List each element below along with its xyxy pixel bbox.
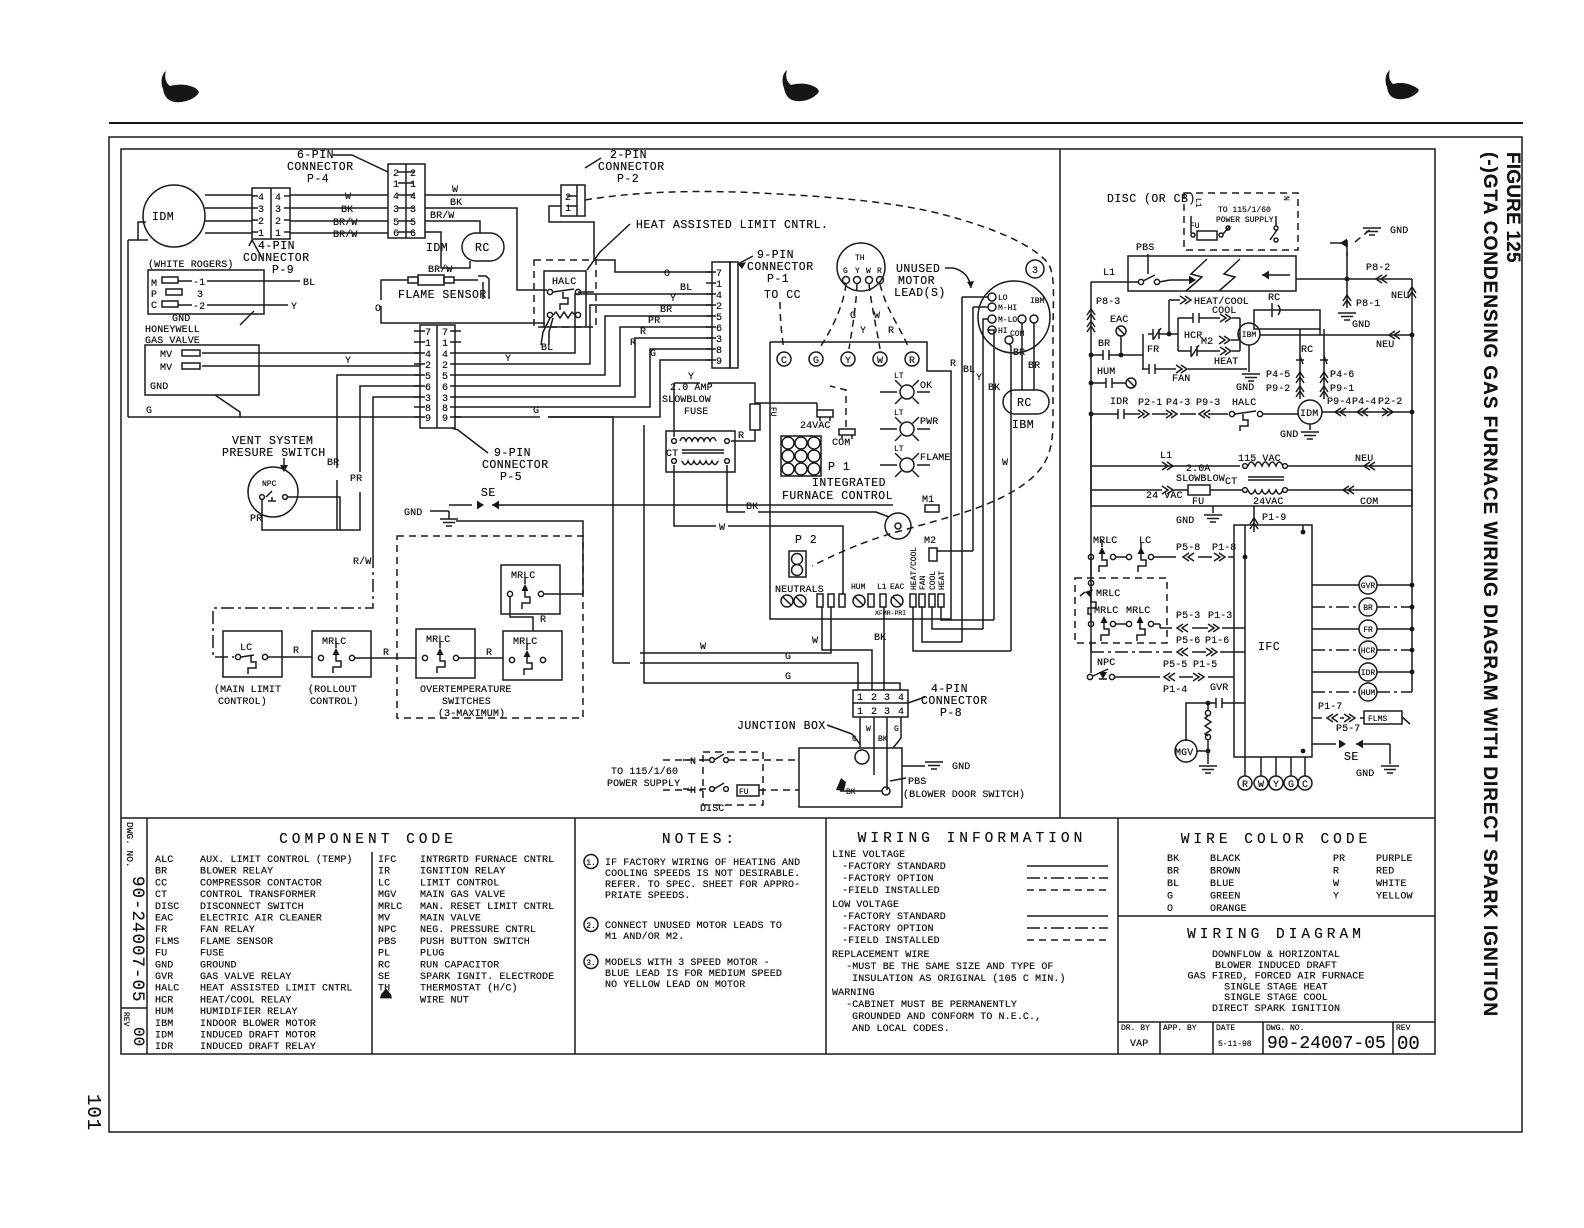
svg-text:(3-MAXIMUM): (3-MAXIMUM) <box>438 708 505 720</box>
svg-text:HALC: HALC <box>1232 398 1256 409</box>
svg-text:GND: GND <box>1352 320 1370 331</box>
svg-text:SWITCHES: SWITCHES <box>442 697 491 708</box>
svg-text:(BLOWER DOOR SWITCH): (BLOWER DOOR SWITCH) <box>903 789 1025 801</box>
svg-text:3: 3 <box>884 693 890 704</box>
svg-text:00: 00 <box>129 1027 147 1046</box>
svg-text:BR: BR <box>1028 361 1040 372</box>
thermostat TH <box>837 243 885 291</box>
svg-text:CONNECT UNUSED MOTOR LEADS TO: CONNECT UNUSED MOTOR LEADS TO <box>605 921 782 932</box>
svg-text:PRIATE SPEEDS.: PRIATE SPEEDS. <box>605 891 690 902</box>
heat cool stub <box>1168 300 1170 334</box>
MRLC pair in dashed box <box>1088 621 1093 626</box>
svg-text:G: G <box>852 735 857 744</box>
ground at junction box <box>902 765 925 767</box>
svg-text:Y: Y <box>291 302 297 313</box>
svg-text:EAC: EAC <box>1110 315 1128 326</box>
svg-text:DWG. NO.: DWG. NO. <box>1266 1024 1304 1033</box>
svg-text:REV: REV <box>121 1012 130 1027</box>
inner border frame <box>121 149 1435 1054</box>
induced draft motor IDM <box>143 185 205 247</box>
svg-text:L1: L1 <box>1193 198 1202 208</box>
svg-text:HEAT/COOL: HEAT/COOL <box>910 547 919 590</box>
svg-text:BL: BL <box>303 278 315 289</box>
svg-text:1: 1 <box>425 339 431 350</box>
svg-text:GND: GND <box>1390 226 1408 237</box>
svg-text:MV: MV <box>378 914 390 925</box>
wire G 2 <box>644 425 900 690</box>
svg-text:HUM: HUM <box>1361 689 1376 698</box>
svg-text:90-24007-05: 90-24007-05 <box>127 876 147 1003</box>
svg-text:FURNACE CONTROL: FURNACE CONTROL <box>782 490 893 503</box>
24vac winding <box>1243 488 1248 493</box>
svg-text:WIRE COLOR CODE: WIRE COLOR CODE <box>1181 832 1372 848</box>
svg-text:W: W <box>1333 879 1339 890</box>
IDM motor right <box>1298 400 1322 424</box>
wire G P-5 to P-1 <box>548 360 712 417</box>
svg-text:CONTROL): CONTROL) <box>310 696 359 708</box>
svg-text:BL: BL <box>541 343 553 354</box>
svg-text:PLUG: PLUG <box>420 949 444 960</box>
svg-text:IBM: IBM <box>1030 297 1045 306</box>
svg-text:P 2: P 2 <box>795 534 817 547</box>
overtemp switch MRLC b <box>503 631 562 680</box>
svg-text:W: W <box>345 192 351 203</box>
svg-text:PR: PR <box>648 316 660 327</box>
svg-text:FLMS: FLMS <box>155 937 179 948</box>
svg-text:6: 6 <box>716 324 722 335</box>
svg-text:IFC: IFC <box>378 855 396 866</box>
svg-text:W: W <box>452 185 458 196</box>
lamp FLAME <box>900 458 914 472</box>
svg-text:5: 5 <box>425 372 431 383</box>
ink blob top-right <box>1386 70 1419 99</box>
connector P-9 <box>252 188 290 239</box>
svg-text:ALC: ALC <box>155 855 173 866</box>
IBM motor right <box>1238 323 1260 345</box>
svg-text:IDM: IDM <box>152 211 174 224</box>
svg-text:BROWN: BROWN <box>1210 867 1241 878</box>
svg-text:1: 1 <box>442 339 448 350</box>
svg-text:1: 1 <box>857 693 863 704</box>
svg-text:R: R <box>888 326 894 337</box>
svg-text:GND: GND <box>155 960 173 971</box>
ground P8-1 <box>1346 243 1348 308</box>
svg-text:G: G <box>533 406 539 417</box>
svg-text:NO YELLOW LEAD ON MOTOR: NO YELLOW LEAD ON MOTOR <box>605 980 745 991</box>
svg-text:P2-2: P2-2 <box>1378 397 1402 408</box>
negative pressure control NPC <box>248 467 298 517</box>
svg-text:FLAME: FLAME <box>920 453 951 464</box>
svg-text:R: R <box>630 338 636 349</box>
svg-text:FUSE: FUSE <box>684 407 708 418</box>
wires into isolation box <box>1091 281 1138 283</box>
svg-text:P5-5: P5-5 <box>1163 660 1187 671</box>
svg-text:IDM: IDM <box>1300 409 1318 420</box>
svg-text:101: 101 <box>82 1094 104 1131</box>
svg-text:9: 9 <box>716 357 722 368</box>
svg-text:POWER SUPPLY: POWER SUPPLY <box>1216 216 1274 225</box>
svg-text:BK: BK <box>846 788 856 797</box>
HALC resistor <box>547 312 552 317</box>
svg-text:MAN. RESET LIMIT CNTRL: MAN. RESET LIMIT CNTRL <box>420 902 554 913</box>
svg-text:6: 6 <box>442 383 448 394</box>
svg-text:FAN RELAY: FAN RELAY <box>200 925 255 936</box>
svg-text:PL: PL <box>378 949 390 960</box>
isolation box with bolts <box>1128 256 1296 291</box>
svg-text:2.: 2. <box>586 922 596 931</box>
svg-text:P1-6: P1-6 <box>1205 636 1229 647</box>
svg-text:BLUE: BLUE <box>1210 879 1234 890</box>
svg-text:G: G <box>1167 892 1173 903</box>
schematic divider <box>1059 149 1061 818</box>
wire PR P-5 to P-1 <box>461 327 712 386</box>
SE right <box>1312 743 1336 745</box>
svg-text:MV: MV <box>160 350 172 361</box>
svg-text:5: 5 <box>393 218 399 229</box>
svg-text:IF FACTORY WIRING OF HEATING A: IF FACTORY WIRING OF HEATING AND <box>605 858 800 869</box>
svg-text:6: 6 <box>425 383 431 394</box>
svg-text:SLOWBLOW: SLOWBLOW <box>1176 474 1225 485</box>
svg-text:R: R <box>486 648 492 659</box>
svg-text:Y: Y <box>860 326 866 337</box>
svg-text:2: 2 <box>871 707 877 718</box>
wire BR/W to RC cap <box>425 221 480 233</box>
svg-text:BK: BK <box>746 502 758 513</box>
GND under IDM right <box>1309 424 1311 430</box>
svg-text:P9-2: P9-2 <box>1266 384 1290 395</box>
wire G gas valve ground <box>215 395 240 417</box>
svg-text:NEU: NEU <box>1376 340 1394 351</box>
svg-text:P 1: P 1 <box>828 461 850 474</box>
svg-text:VAP: VAP <box>1130 1039 1148 1050</box>
svg-text:G: G <box>785 652 791 663</box>
svg-text:Y: Y <box>670 294 676 305</box>
svg-text:P4-6: P4-6 <box>1330 370 1354 381</box>
svg-text:5: 5 <box>442 372 448 383</box>
svg-text:PBS: PBS <box>1136 243 1154 254</box>
wires P-8 to junction box <box>859 717 861 748</box>
svg-text:C: C <box>1302 780 1308 791</box>
svg-text:G: G <box>785 672 791 683</box>
svg-text:BK: BK <box>874 633 886 644</box>
svg-text:MRLC: MRLC <box>1094 606 1118 617</box>
svg-text:LC: LC <box>378 878 390 889</box>
svg-text:SE: SE <box>1344 751 1359 764</box>
outer border frame <box>109 137 1522 1132</box>
svg-text:EAC: EAC <box>155 914 173 925</box>
FR contact top <box>1148 328 1165 340</box>
svg-text:HEAT ASSISTED LIMIT CNTRL.: HEAT ASSISTED LIMIT CNTRL. <box>636 219 828 232</box>
HEAT row <box>1186 345 1202 357</box>
svg-text:MODELS WITH 3 SPEED MOTOR -: MODELS WITH 3 SPEED MOTOR - <box>605 958 770 969</box>
svg-text:IDM: IDM <box>155 1031 173 1042</box>
svg-text:M2: M2 <box>924 536 936 547</box>
right rail lower <box>1411 466 1413 506</box>
svg-text:BLOWER RELAY: BLOWER RELAY <box>200 867 273 878</box>
wire W neutral down <box>822 607 872 690</box>
svg-text:G: G <box>146 406 152 417</box>
svg-text:4: 4 <box>410 192 416 203</box>
ground top right <box>1363 227 1381 229</box>
svg-text:7: 7 <box>442 328 448 339</box>
svg-text:HEAT: HEAT <box>1214 357 1238 368</box>
svg-text:W: W <box>1258 780 1264 791</box>
wire to P1-9 gnd <box>1090 490 1092 506</box>
junction box <box>799 748 902 807</box>
svg-text:9: 9 <box>442 414 448 425</box>
main gas valve MGV <box>1175 740 1197 762</box>
svg-text:WIRING INFORMATION: WIRING INFORMATION <box>858 831 1087 847</box>
heat assisted limit control HALC <box>544 271 586 327</box>
svg-text:MRLC: MRLC <box>426 635 450 646</box>
svg-text:P5-6: P5-6 <box>1176 636 1200 647</box>
bracket3 into IBM <box>1239 318 1241 351</box>
svg-text:HUM: HUM <box>155 1007 173 1018</box>
svg-text:SINGLE STAGE COOL: SINGLE STAGE COOL <box>1224 993 1328 1004</box>
wire R MRLC1 to MRLC2 <box>355 657 416 659</box>
svg-text:2: 2 <box>442 361 448 372</box>
svg-text:GAS FIRED, FORCED AIR FURNACE: GAS FIRED, FORCED AIR FURNACE <box>1188 972 1365 983</box>
wire R MRLC a to b <box>459 657 503 659</box>
svg-text:INTRGRTD FURNACE CNTRL: INTRGRTD FURNACE CNTRL <box>420 855 554 866</box>
svg-text:GROUND: GROUND <box>200 960 237 971</box>
svg-text:DATE: DATE <box>1216 1024 1235 1033</box>
overtemperature dashed box <box>397 536 583 718</box>
svg-text:R: R <box>1242 780 1248 791</box>
FAN row <box>1142 368 1149 370</box>
svg-text:3: 3 <box>197 290 203 301</box>
svg-text:4: 4 <box>425 350 431 361</box>
svg-text:C: C <box>781 356 787 367</box>
wire Y P-5 to P-1 <box>461 305 712 364</box>
svg-text:PRESURE SWITCH: PRESURE SWITCH <box>222 447 326 460</box>
svg-text:INTEGRATED: INTEGRATED <box>812 477 886 490</box>
svg-text:BR/W: BR/W <box>333 217 357 229</box>
svg-text:-FIELD INSTALLED: -FIELD INSTALLED <box>836 886 940 897</box>
svg-text:WHITE: WHITE <box>1376 879 1407 890</box>
terminals C G Y W R <box>777 352 791 366</box>
wire P-2 pin1 to O wire <box>549 206 712 272</box>
svg-text:C: C <box>151 301 157 312</box>
svg-text:PWR: PWR <box>920 417 938 428</box>
svg-text:PBS: PBS <box>908 777 926 788</box>
svg-text:G: G <box>813 356 819 367</box>
svg-text:SE: SE <box>481 487 496 500</box>
svg-text:REPLACEMENT WIRE: REPLACEMENT WIRE <box>832 950 930 961</box>
svg-text:P9-3: P9-3 <box>1196 398 1220 409</box>
svg-text:BR: BR <box>1363 604 1373 613</box>
svg-text:P8-3: P8-3 <box>1096 297 1120 308</box>
svg-text:MV: MV <box>160 363 172 374</box>
svg-text:W: W <box>866 267 871 276</box>
svg-text:RED: RED <box>1376 867 1394 878</box>
svg-text:6: 6 <box>393 229 399 240</box>
wire BK from CT to M1 <box>727 465 745 512</box>
svg-text:2.0 AMP: 2.0 AMP <box>670 383 713 394</box>
svg-text:-FACTORY STANDARD: -FACTORY STANDARD <box>836 862 946 873</box>
svg-text:RC: RC <box>378 960 390 971</box>
svg-text:CT: CT <box>155 890 167 901</box>
svg-text:P5-7: P5-7 <box>1336 724 1360 735</box>
svg-text:IBM: IBM <box>155 1019 173 1030</box>
svg-text:DISC: DISC <box>155 902 179 913</box>
wire Y gas valve to P-5 <box>202 365 420 367</box>
svg-text:1.: 1. <box>586 859 596 868</box>
svg-text:RC: RC <box>475 242 490 255</box>
top rule <box>109 122 1523 124</box>
svg-text:HEAT: HEAT <box>938 571 947 590</box>
wire W from CT <box>674 465 716 526</box>
svg-text:P8-2: P8-2 <box>1366 263 1390 274</box>
svg-text:IR: IR <box>378 867 390 878</box>
svg-text:00: 00 <box>1397 1033 1420 1055</box>
svg-text:4: 4 <box>898 693 904 704</box>
svg-text:4: 4 <box>393 192 399 203</box>
svg-text:COMPRESSOR CONTACTOR: COMPRESSOR CONTACTOR <box>200 878 322 889</box>
svg-text:DWG. NO.: DWG. NO. <box>124 822 135 868</box>
svg-text:BR/W: BR/W <box>428 264 452 276</box>
svg-text:GREEN: GREEN <box>1210 892 1241 903</box>
svg-text:IGNITION RELAY: IGNITION RELAY <box>420 867 505 878</box>
svg-text:JUNCTION BOX: JUNCTION BOX <box>737 720 826 733</box>
svg-text:IDR: IDR <box>155 1042 173 1053</box>
svg-text:MRLC: MRLC <box>511 571 535 582</box>
svg-text:INSULATION AS ORIGINAL (105 C: INSULATION AS ORIGINAL (105 C MIN.) <box>846 973 1066 985</box>
svg-text:OK: OK <box>920 381 932 392</box>
wire BR vertical to NPC <box>337 375 420 468</box>
svg-text:BLOWER INDUCED DRAFT: BLOWER INDUCED DRAFT <box>1215 961 1337 972</box>
svg-text:H: H <box>690 786 696 797</box>
svg-text:FU: FU <box>155 949 167 960</box>
wire BL P-5 to P-1 <box>461 294 712 353</box>
svg-text:P-2: P-2 <box>617 173 639 186</box>
svg-text:LT: LT <box>894 372 904 381</box>
ground under MGV <box>1207 751 1209 764</box>
svg-text:GND: GND <box>952 762 970 773</box>
svg-text:SINGLE STAGE HEAT: SINGLE STAGE HEAT <box>1224 982 1328 993</box>
dashed MRLC box <box>1075 578 1167 643</box>
svg-text:R: R <box>540 615 546 626</box>
spark electrode below HALC <box>541 318 550 345</box>
svg-text:24VAC: 24VAC <box>800 421 831 432</box>
svg-text:DISCONNECT SWITCH: DISCONNECT SWITCH <box>200 902 304 913</box>
svg-text:WIRE NUT: WIRE NUT <box>420 995 469 1006</box>
svg-text:N: N <box>1281 196 1290 201</box>
svg-text:1: 1 <box>258 229 264 240</box>
wires BR to RC idm2 <box>1021 323 1023 390</box>
svg-text:G: G <box>650 349 656 360</box>
svg-text:LC: LC <box>240 643 252 654</box>
svg-text:FLAME SENSOR: FLAME SENSOR <box>200 937 273 948</box>
wire PR from NPC <box>262 497 340 530</box>
24vac plug <box>817 410 833 417</box>
svg-text:W: W <box>866 725 871 734</box>
circled 3 <box>1026 260 1044 278</box>
ink blob top-center <box>783 70 819 101</box>
IFC terminal box outline <box>770 342 951 619</box>
title block strip <box>1118 1021 1435 1023</box>
svg-text:TH: TH <box>855 254 865 263</box>
disc switches <box>710 758 715 763</box>
svg-text:(ROLLOUT: (ROLLOUT <box>308 684 357 696</box>
svg-text:PURPLE: PURPLE <box>1376 854 1413 865</box>
connector P-2 2-pin <box>561 185 585 216</box>
svg-text:Y: Y <box>976 373 982 384</box>
svg-text:P1-9: P1-9 <box>1262 513 1286 524</box>
svg-text:-FACTORY OPTION: -FACTORY OPTION <box>836 924 934 935</box>
svg-text:7: 7 <box>716 269 722 280</box>
svg-text:PBS: PBS <box>378 937 396 948</box>
wire P8-2 to right rail <box>1296 278 1412 280</box>
svg-text:SE: SE <box>378 972 390 983</box>
svg-text:INDOOR BLOWER MOTOR: INDOOR BLOWER MOTOR <box>200 1019 316 1030</box>
svg-text:P4-3: P4-3 <box>1166 398 1190 409</box>
svg-text:3: 3 <box>716 335 722 346</box>
svg-text:IBM: IBM <box>1012 419 1034 432</box>
svg-text:NEU: NEU <box>1391 291 1409 302</box>
svg-text:GROUNDED AND CONFORM TO N.E.C.: GROUNDED AND CONFORM TO N.E.C., <box>846 1012 1041 1023</box>
svg-text:BR: BR <box>155 867 167 878</box>
svg-text:P4-5: P4-5 <box>1266 370 1290 381</box>
svg-text:GVR: GVR <box>1210 683 1228 694</box>
svg-text:PUSH BUTTON SWITCH: PUSH BUTTON SWITCH <box>420 937 530 948</box>
svg-text:L1: L1 <box>1160 451 1172 462</box>
svg-text:GAS VALVE RELAY: GAS VALVE RELAY <box>200 972 292 983</box>
svg-text:-FIELD INSTALLED: -FIELD INSTALLED <box>836 936 940 947</box>
svg-text:P2-1: P2-1 <box>1138 398 1162 409</box>
svg-text:Y: Y <box>845 356 851 367</box>
svg-text:3: 3 <box>258 205 264 216</box>
svg-text:INDUCED DRAFT RELAY: INDUCED DRAFT RELAY <box>200 1042 316 1053</box>
svg-text:AND LOCAL CODES.: AND LOCAL CODES. <box>846 1024 950 1035</box>
svg-text:ORANGE: ORANGE <box>1210 904 1247 915</box>
svg-text:MRLC: MRLC <box>1126 606 1150 617</box>
svg-text:CC: CC <box>155 878 167 889</box>
svg-text:LT: LT <box>894 445 904 454</box>
svg-text:MRLC: MRLC <box>513 637 537 648</box>
svg-text:2: 2 <box>393 169 399 180</box>
IFC box right <box>1234 525 1312 757</box>
svg-text:P9-4: P9-4 <box>1327 397 1351 408</box>
svg-text:BK: BK <box>450 198 462 209</box>
R W Y G C terminals bottom <box>1238 776 1252 790</box>
resistor to MGV <box>1205 710 1210 715</box>
wire R/W main limit chain <box>373 397 420 555</box>
svg-text:2: 2 <box>258 217 264 228</box>
svg-text:R: R <box>640 327 646 338</box>
svg-text:MGV: MGV <box>1175 748 1193 759</box>
svg-text:O: O <box>1167 904 1173 915</box>
svg-text:P8-1: P8-1 <box>1356 299 1380 310</box>
svg-text:SLOWBLOW: SLOWBLOW <box>662 395 711 406</box>
svg-text:R: R <box>909 356 915 367</box>
svg-text:O: O <box>375 304 381 315</box>
svg-text:FR: FR <box>1147 345 1159 356</box>
svg-text:BLACK: BLACK <box>1210 854 1241 865</box>
svg-text:P-4: P-4 <box>307 173 329 186</box>
svg-text:NPC: NPC <box>1097 658 1115 669</box>
svg-text:P: P <box>151 290 157 301</box>
svg-text:Y: Y <box>1273 780 1279 791</box>
svg-text:IDR: IDR <box>1110 397 1128 408</box>
svg-text:CONTROL): CONTROL) <box>218 696 267 708</box>
svg-text:G: G <box>1288 780 1294 791</box>
svg-text:WARNING: WARNING <box>832 988 875 999</box>
svg-text:PR: PR <box>1333 854 1345 865</box>
bracket2 <box>1177 318 1179 351</box>
wire R 2 P-5 to P-1 <box>461 349 712 407</box>
wires IDM to rail <box>1322 411 1412 413</box>
